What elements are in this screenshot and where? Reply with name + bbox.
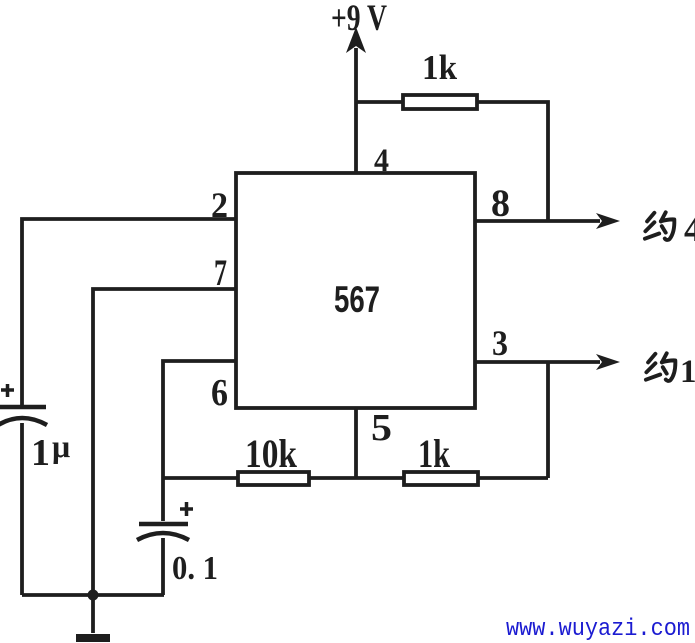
svg-text:2: 2 — [211, 185, 228, 225]
svg-text:1: 1 — [31, 432, 50, 474]
svg-text:5: 5 — [371, 407, 392, 449]
svg-text:567: 567 — [334, 279, 380, 320]
svg-text:7: 7 — [214, 253, 227, 294]
svg-text:3: 3 — [492, 323, 508, 363]
svg-text:0. 1: 0. 1 — [172, 550, 218, 587]
svg-text:1: 1 — [680, 354, 695, 390]
svg-text:+9 V: +9 V — [331, 0, 387, 39]
svg-text:μ: μ — [52, 428, 70, 464]
svg-text:4: 4 — [684, 209, 695, 249]
svg-text:1k: 1k — [422, 48, 458, 87]
svg-text:4: 4 — [374, 143, 389, 179]
svg-text:6: 6 — [211, 372, 228, 414]
svg-text:www.wuyazi.com: www.wuyazi.com — [506, 616, 690, 643]
svg-text:1k: 1k — [418, 431, 451, 476]
svg-text:8: 8 — [491, 182, 510, 225]
svg-text:10k: 10k — [245, 431, 298, 476]
